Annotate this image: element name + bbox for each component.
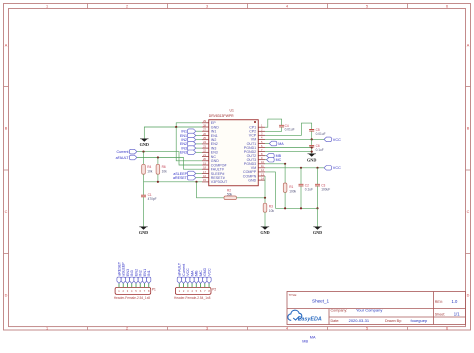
svg-text:R4: R4 xyxy=(147,165,151,169)
net port EN3 on P1 pin 3 xyxy=(125,277,129,283)
net port MC xyxy=(267,157,275,162)
svg-text:R6: R6 xyxy=(162,165,166,169)
connector P1 Header-Female 2.54_1x8 body xyxy=(115,288,151,295)
connector P1 pin 5 lead xyxy=(135,283,137,287)
connector P1 pin 8 lead xyxy=(148,283,150,287)
capacitor C5 0.01uF on VCP xyxy=(265,123,312,135)
resistor R1 100k xyxy=(284,164,286,183)
svg-text:GND: GND xyxy=(313,230,322,235)
svg-text:50k: 50k xyxy=(227,192,233,196)
svg-text:10k: 10k xyxy=(162,170,168,174)
IC U1 right pins with numbers xyxy=(258,124,265,181)
junction Current/R4 xyxy=(142,151,144,153)
capacitor C2 0.1uF xyxy=(300,168,302,184)
net port aRESET on P1 pin 1 xyxy=(117,277,121,283)
junction PGND3/R1 xyxy=(284,163,286,165)
connector P2 pin 8 lead xyxy=(208,283,210,287)
svg-text:Sheet:: Sheet: xyxy=(435,313,445,317)
net port MA on P2 pin 4 xyxy=(190,277,194,283)
svg-text:0.1uF: 0.1uF xyxy=(305,188,313,192)
junction aFAULT/R6 xyxy=(157,156,159,158)
connector P2 pin 2 lead xyxy=(183,283,185,287)
junction PGND2 xyxy=(311,151,313,153)
svg-text:100k: 100k xyxy=(289,189,296,193)
connector P1 pin 6 lead xyxy=(139,283,141,287)
svg-text:DRV8313PWPR: DRV8313PWPR xyxy=(209,114,234,118)
svg-text:EasyEDA: EasyEDA xyxy=(298,317,322,323)
svg-text:EN3: EN3 xyxy=(180,151,187,155)
net port MB on P2 pin 5 xyxy=(194,277,198,283)
frame column numbers xyxy=(46,4,448,330)
frame row letters xyxy=(5,44,470,298)
svg-text:C: C xyxy=(467,210,470,214)
svg-text:100uF: 100uF xyxy=(321,188,330,192)
svg-text:5: 5 xyxy=(366,327,368,331)
connector P1 pin 3 lead xyxy=(127,283,129,287)
IC U1 DRV8313PWPR body xyxy=(209,120,259,186)
junction C2/bus xyxy=(300,207,302,209)
svg-text:Header-Female-2.54_1x8: Header-Female-2.54_1x8 xyxy=(174,296,211,300)
svg-text:VCC: VCC xyxy=(333,138,341,142)
ground flag below R3 xyxy=(260,227,269,235)
IC U1 left pin names xyxy=(211,121,228,184)
svg-text:0.1uF: 0.1uF xyxy=(316,148,324,152)
svg-text:GND: GND xyxy=(139,230,148,235)
net port VCC on P2 pin 3 xyxy=(186,277,190,283)
svg-text:4: 4 xyxy=(286,4,288,8)
wire GND pin2 to ground flag xyxy=(144,127,202,139)
net port GND on P2 pin 7 xyxy=(203,277,207,283)
wire COMPP down to bottom bus xyxy=(265,172,275,208)
svg-text:VCC: VCC xyxy=(207,268,211,276)
svg-text:5: 5 xyxy=(366,4,368,8)
net port MA xyxy=(269,141,277,146)
svg-text:3: 3 xyxy=(206,4,208,8)
wire VM pin11 to VCC xyxy=(265,167,324,169)
connector P1 pin 7 lead xyxy=(144,283,146,287)
wire PGND1 to ground xyxy=(265,147,312,149)
IC U1 left pins with numbers xyxy=(202,119,209,182)
junction EP/GND net xyxy=(175,126,177,128)
svg-text:MB: MB xyxy=(302,339,308,343)
connector P2 pin 7 lead xyxy=(204,283,206,287)
svg-text:470pF: 470pF xyxy=(148,197,157,201)
net port IN3 on P1 pin 4 xyxy=(130,277,134,283)
svg-text:U1: U1 xyxy=(230,109,234,113)
svg-text:0.01uF: 0.01uF xyxy=(285,128,295,132)
svg-text:Company:: Company: xyxy=(331,309,348,313)
svg-text:MA: MA xyxy=(278,142,284,146)
net port Current on P2 pin 2 xyxy=(181,277,185,283)
svg-text:GND: GND xyxy=(140,142,149,147)
connector P1 pin 1 lead xyxy=(118,283,120,287)
wire aFAULT to FAULT# pin xyxy=(137,158,202,170)
resistor R3 10k xyxy=(264,198,266,203)
svg-text:VCC: VCC xyxy=(333,166,341,170)
svg-text:C: C xyxy=(5,210,8,214)
junction C2/VM xyxy=(300,167,302,169)
ground flag below C6 xyxy=(307,154,316,163)
connector P2 pin 4 lead xyxy=(191,283,193,287)
svg-text:2020-03-31: 2020-03-31 xyxy=(349,318,370,323)
IC U1 right pin names xyxy=(243,126,257,183)
svg-text:6: 6 xyxy=(446,4,448,8)
wire GND pin10 branch xyxy=(176,127,202,161)
svg-text:3: 3 xyxy=(206,327,208,331)
capacitor C4 0.01uF with CP1/CP2 loop xyxy=(265,119,282,127)
junction R6/V3P3OUT xyxy=(157,181,159,183)
svg-text:GND: GND xyxy=(307,158,316,163)
resistor R6 10k xyxy=(157,158,159,165)
junction R2 branch/V3P3OUT xyxy=(195,181,197,183)
resistor R2 50k xyxy=(197,182,225,198)
svg-text:REV:: REV: xyxy=(435,300,443,304)
capacitor C1 470pF xyxy=(143,182,145,195)
net port IN1 on P1 pin 8 xyxy=(147,277,151,283)
connector P2 pin 1 lead xyxy=(178,283,180,287)
svg-text:D: D xyxy=(5,294,8,298)
svg-text:P1: P1 xyxy=(152,288,156,292)
junction R2/R3/COMPN xyxy=(264,197,266,199)
svg-text:6: 6 xyxy=(446,327,448,331)
wire bus to ground xyxy=(317,208,319,226)
connector P2 Header-Female 2.54_1x8 body xyxy=(175,288,211,295)
svg-text:A: A xyxy=(5,44,8,48)
svg-text:GND: GND xyxy=(260,230,269,235)
connector P2 pin 6 lead xyxy=(200,283,202,287)
wire EP pin to GND net xyxy=(176,123,202,127)
net port MB xyxy=(267,153,275,158)
junction C3/bus xyxy=(316,207,318,209)
svg-text:Your Company: Your Company xyxy=(356,308,382,313)
wire VM pin4 to VCC xyxy=(265,138,324,140)
svg-text:Sheet_1: Sheet_1 xyxy=(312,298,330,303)
net port aFAULT on P2 pin 1 xyxy=(177,277,181,283)
net port VCC lower xyxy=(324,166,332,171)
net port VCC upper xyxy=(324,137,332,142)
net port MC on P2 pin 6 xyxy=(198,277,202,283)
capacitor C3 100uF xyxy=(317,168,319,184)
wire Current to COMPO# pin xyxy=(137,152,202,165)
svg-text:2: 2 xyxy=(126,327,128,331)
svg-text:GND: GND xyxy=(248,178,256,182)
wire PGND2 to ground xyxy=(265,151,312,153)
svg-text:foueguep: foueguep xyxy=(411,318,428,323)
ground flag below C1 xyxy=(139,227,148,235)
wire OUT2 to MB xyxy=(265,155,267,157)
net port aSLEEP on P1 pin 2 xyxy=(121,277,125,283)
wire OUT1 to MA xyxy=(265,143,269,145)
wire V3P3OUT bus xyxy=(144,181,203,183)
EasyEDA logo xyxy=(288,310,322,322)
capacitor C6 0.1uF xyxy=(311,139,313,145)
title block xyxy=(287,292,466,325)
net port EN1 on P1 pin 7 xyxy=(142,277,146,283)
junction VM/C5/C6 xyxy=(311,138,313,140)
svg-text:1: 1 xyxy=(46,327,48,331)
svg-text:IN1: IN1 xyxy=(147,270,151,276)
svg-text:1: 1 xyxy=(46,4,48,8)
svg-text:Current: Current xyxy=(117,150,129,154)
svg-text:1.0: 1.0 xyxy=(452,299,458,304)
ground flag bottom-right xyxy=(313,227,322,235)
net port EN2 on P1 pin 5 xyxy=(134,277,138,283)
connector P1 pin 4 lead xyxy=(131,283,133,287)
svg-text:MC: MC xyxy=(276,158,282,162)
ground flag top-left xyxy=(140,139,149,147)
svg-text:MA: MA xyxy=(310,336,316,340)
svg-text:10k: 10k xyxy=(269,209,275,213)
svg-text:Drawn By:: Drawn By: xyxy=(385,319,402,323)
svg-text:1/1: 1/1 xyxy=(454,312,460,317)
junction PGND1 xyxy=(311,146,313,148)
wire COMPN to divider xyxy=(264,176,266,198)
net port IN2 on P1 pin 6 xyxy=(138,277,142,283)
svg-text:TITLE:: TITLE: xyxy=(289,293,298,297)
svg-text:V3P3OUT: V3P3OUT xyxy=(211,180,228,184)
wire OUT3 to MC xyxy=(265,159,267,161)
resistor R4 10k xyxy=(143,152,145,165)
wire PGND3 to R1 xyxy=(265,163,285,165)
connector P1 pin 2 lead xyxy=(122,283,124,287)
svg-text:R1: R1 xyxy=(289,185,293,189)
svg-text:aFAULT: aFAULT xyxy=(116,156,130,160)
wire bottom bus xyxy=(275,207,317,209)
svg-text:D: D xyxy=(467,294,470,298)
junction C3/VM xyxy=(316,167,318,169)
connector P2 pin 5 lead xyxy=(195,283,197,287)
svg-text:Header-Female-2.54_1x8: Header-Female-2.54_1x8 xyxy=(114,296,151,300)
svg-text:0.01uF: 0.01uF xyxy=(316,132,326,136)
svg-text:4: 4 xyxy=(286,327,288,331)
svg-text:B: B xyxy=(467,127,470,131)
svg-text:Date:: Date: xyxy=(331,319,340,323)
svg-text:B: B xyxy=(5,127,8,131)
connector P2 pin 3 lead xyxy=(187,283,189,287)
svg-text:P2: P2 xyxy=(212,288,216,292)
IC U1 pin-1 dot xyxy=(254,121,256,123)
svg-text:aRESET: aRESET xyxy=(173,176,188,180)
net port VCC on P2 pin 8 xyxy=(207,277,211,283)
junction R1/bus xyxy=(284,207,286,209)
svg-text:2: 2 xyxy=(126,4,128,8)
svg-text:10k: 10k xyxy=(147,170,153,174)
svg-text:A: A xyxy=(467,44,470,48)
